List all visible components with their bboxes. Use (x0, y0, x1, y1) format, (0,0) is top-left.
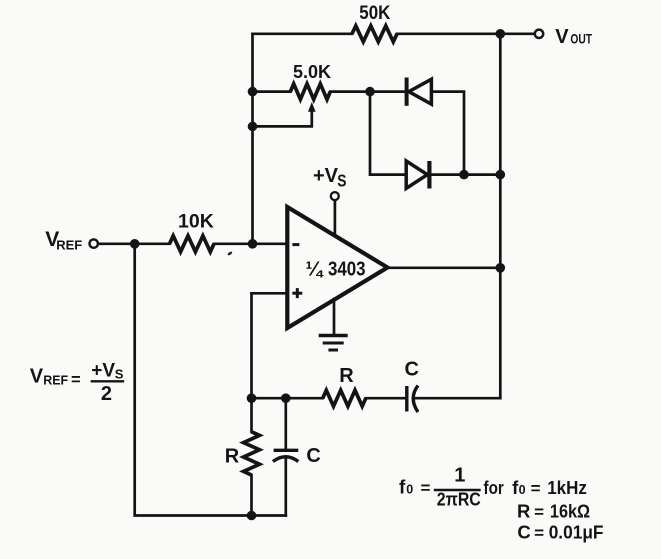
svg-text:f: f (399, 477, 406, 498)
svg-text:16kΩ: 16kΩ (550, 500, 590, 521)
svg-text:0: 0 (519, 483, 526, 497)
svg-text:=: = (534, 524, 544, 543)
svg-text:V: V (555, 26, 569, 48)
svg-text:0: 0 (406, 482, 413, 496)
svg-text:1kHz: 1kHz (547, 477, 587, 498)
svg-text:R: R (339, 365, 354, 387)
svg-text:1: 1 (454, 464, 465, 486)
svg-text:for: for (484, 477, 504, 498)
svg-text:+V: +V (91, 360, 115, 381)
svg-text:¼: ¼ (306, 258, 325, 280)
svg-text:C: C (306, 445, 320, 467)
svg-text:5.0K: 5.0K (293, 62, 331, 82)
svg-text:=: = (534, 502, 544, 521)
svg-text:R: R (225, 445, 240, 467)
svg-text:R: R (517, 500, 530, 521)
svg-text:REF: REF (43, 373, 68, 387)
svg-text:=: = (71, 371, 81, 389)
svg-text:=: = (421, 478, 431, 497)
svg-text:S: S (115, 367, 124, 382)
svg-text:2: 2 (101, 383, 112, 405)
svg-text:V: V (30, 365, 44, 387)
svg-text:S: S (337, 171, 346, 191)
svg-text:C: C (517, 522, 530, 543)
svg-text:+V: +V (313, 165, 339, 187)
svg-text:OUT: OUT (570, 32, 592, 47)
svg-text:=: = (531, 479, 541, 498)
svg-text:10K: 10K (178, 211, 214, 233)
svg-text:REF: REF (56, 237, 82, 252)
svg-text:C: C (405, 359, 419, 381)
svg-text:2πRC: 2πRC (437, 490, 481, 510)
svg-text:3403: 3403 (328, 258, 366, 281)
svg-text:0.01μF: 0.01μF (549, 522, 604, 543)
svg-text:50K: 50K (359, 3, 390, 24)
